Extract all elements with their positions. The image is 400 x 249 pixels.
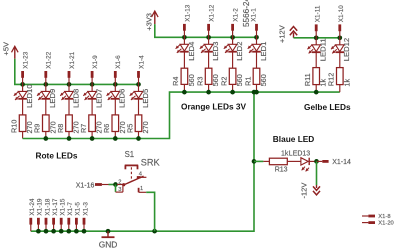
pin X1-7 [67,202,74,232]
pin X1-19 [37,198,44,231]
svg-text:R7: R7 [79,124,88,133]
svg-text:X1-17: X1-17 [52,198,59,215]
svg-text:X1-7: X1-7 [67,202,74,216]
svg-text:X1-21: X1-21 [69,51,76,68]
junction +5V rail at X1-23 [20,82,25,87]
pin X1-10 [338,5,345,38]
pin X1-18 [44,198,51,231]
svg-text:3: 3 [118,187,121,193]
pin X1-5 [75,202,82,232]
pin X1-8 [362,214,391,220]
junction GND bus [44,229,49,234]
pin X1-24 [29,198,36,231]
wire X1-16 node to pin3 [115,185,117,192]
svg-text:X1-12: X1-12 [209,4,216,21]
junction switch drop at GND bus [152,229,157,234]
svg-text:S1: S1 [125,150,135,159]
pin X1-1 [251,8,258,38]
pin X1-15 [60,198,67,231]
pin X1-23 [23,51,30,84]
LED LED4 [176,37,196,61]
svg-text:270: 270 [141,121,150,133]
resistor R9 270 [33,99,58,139]
pin X1-22 [46,51,53,84]
svg-text:X1-9: X1-9 [92,55,99,69]
svg-text:LED12: LED12 [342,38,351,62]
pin X1-21 [69,51,76,84]
junction +5V rail at X1-9 [90,82,95,87]
junction orange cathode bus [254,90,259,95]
pin X1-6 [115,55,122,85]
svg-text:X1-13: X1-13 [184,4,191,21]
LED LED9 [37,84,57,108]
junction red cathode bus [43,136,48,141]
junction GND bus [51,229,56,234]
svg-text:X1-4: X1-4 [138,55,145,69]
junction +5V rail at X1-4 [136,82,141,87]
LED LED10 [14,84,34,108]
junction +12V rail at X1-10 [337,35,342,40]
resistor R7 270 [79,99,104,139]
junction +3V3 rail at X1-13 [182,35,187,40]
svg-text:+12V: +12V [278,25,287,43]
svg-text:X1-15: X1-15 [60,198,67,215]
svg-text:X1-14: X1-14 [332,159,351,166]
wire GND bus [31,92,254,231]
resistor R13 1k [263,151,301,174]
svg-text:LED3: LED3 [211,42,220,61]
pin X1-13 [184,4,191,37]
svg-text:X1-10: X1-10 [338,5,345,22]
wire blue feed [254,160,263,162]
wire red-LED cathode bus to orange bus [23,92,340,138]
svg-text:X1-1: X1-1 [251,8,258,22]
svg-text:2: 2 [118,179,121,185]
junction red cathode bus [113,136,118,141]
pin X1-14 [317,159,351,166]
junction +5V rail at X1-21 [67,82,72,87]
svg-text:LED1: LED1 [259,42,268,61]
junction red cathode bus [90,136,95,141]
LED LED2 [224,37,244,61]
junction GND bus [59,229,64,234]
wire switch pin1 to GND bus [146,192,154,231]
svg-text:R8: R8 [56,124,65,133]
svg-text:X1-3: X1-3 [82,202,89,216]
supply +5V [2,42,19,59]
svg-text:X1-5: X1-5 [75,202,82,216]
pin X1-4 [138,55,145,85]
junction +5V rail at X1-22 [43,82,48,87]
LED LED6 [107,84,127,108]
svg-text:GND: GND [99,239,118,249]
LED LED1 [248,37,268,61]
svg-text:LED9: LED9 [48,89,57,108]
pin X1-20 [362,221,394,227]
svg-text:LED6: LED6 [118,89,127,108]
LED LED5 [130,84,150,108]
svg-text:5566-24: 5566-24 [242,0,251,27]
junction +12V rail at X1-11 [314,35,319,40]
svg-text:R2: R2 [219,77,228,86]
svg-text:X1-18: X1-18 [44,198,51,215]
svg-text:R9: R9 [33,124,42,133]
supply +3V3 [144,11,158,31]
svg-text:R13: R13 [275,167,288,174]
wire +12V rail [294,37,340,39]
supply -12V [300,183,320,199]
svg-text:-12V: -12V [300,183,309,199]
junction red cathode bus [67,136,72,141]
junction GND bus [74,229,79,234]
supply +12V [278,25,298,43]
resistor R3 560 [195,52,220,92]
junction +3V3 rail at X1-1 [254,35,259,40]
pin X1-16 [76,182,109,189]
pin X1-12 [209,4,216,37]
svg-text:LED4: LED4 [187,41,196,61]
resistor R8 270 [56,99,81,139]
junction orange cathode bus [182,90,187,95]
svg-text:X1-22: X1-22 [46,51,53,68]
pin X1-9 [92,55,99,85]
switch S1 SRK [116,150,161,193]
svg-text:+3V3: +3V3 [144,13,153,31]
svg-text:1k: 1k [281,151,289,158]
junction +3V3 rail at X1-12 [206,35,211,40]
svg-text:X1-8: X1-8 [378,214,390,220]
svg-text:R11: R11 [303,73,312,86]
resistor R6 270 [102,99,127,139]
pin X1-2 [233,8,240,38]
pin X1-17 [52,198,59,231]
junction GND bus [36,229,41,234]
resistor R10 270 [9,99,34,139]
LED LED8 [60,84,80,108]
junction orange cathode bus [206,90,211,95]
svg-text:X1-20: X1-20 [378,221,393,227]
svg-text:Blaue LED: Blaue LED [273,134,315,144]
svg-text:X1-2: X1-2 [233,8,240,22]
junction blue feed [252,159,257,164]
junction GND bus [66,229,71,234]
svg-text:Gelbe LEDs: Gelbe LEDs [304,102,351,112]
svg-text:LED13: LED13 [289,151,311,158]
svg-text:+5V: +5V [2,42,11,56]
junction red cathode bus [136,136,141,141]
wire +5V rail [15,59,139,85]
wire X1-16 to switch [109,184,116,186]
junction +3V3 rail at X1-2 [230,35,235,40]
junction GND riser at orange bus [252,90,257,95]
svg-text:R6: R6 [102,124,111,133]
LED LED11 [307,38,327,62]
svg-text:Rote LEDs: Rote LEDs [36,151,78,161]
pin X1-3 [82,202,89,232]
svg-text:1: 1 [140,186,143,192]
resistor R5 270 [125,99,150,139]
LED LED13 [289,151,317,172]
svg-text:X1-6: X1-6 [115,55,122,69]
resistor R11 1k [303,52,328,92]
svg-text:R12: R12 [327,73,336,86]
svg-text:1k: 1k [342,79,351,87]
junction +5V rail at X1-6 [113,82,118,87]
svg-text:LED5: LED5 [141,89,150,108]
svg-text:LED11: LED11 [319,38,328,61]
svg-text:LED2: LED2 [235,42,244,61]
svg-text:R1: R1 [243,77,252,86]
junction GND bus [82,229,87,234]
svg-text:LED8: LED8 [71,89,80,108]
svg-text:X1-16: X1-16 [76,182,95,189]
svg-text:LED10: LED10 [25,84,34,108]
resistor R4 560 [171,52,196,92]
svg-text:R10: R10 [9,120,18,133]
svg-text:R4: R4 [171,77,180,86]
svg-text:R5: R5 [125,124,134,133]
svg-text:X1-23: X1-23 [23,51,30,68]
svg-text:560: 560 [259,74,268,86]
resistor R12 1k [327,52,352,92]
resistor R1 560 [243,52,268,92]
junction yellow cathode bus at R11 [314,90,319,95]
svg-text:X1-24: X1-24 [29,198,36,215]
resistor R2 560 [219,52,244,92]
svg-text:SRK: SRK [141,157,161,167]
svg-text:X1-19: X1-19 [37,198,44,215]
svg-text:LED7: LED7 [94,89,103,108]
LED LED7 [83,84,103,108]
pin X1-11 [314,5,321,38]
junction orange cathode bus [230,90,235,95]
wire to -12V [316,161,318,185]
ground GND [99,229,118,249]
wire +3V3 rail [155,24,257,37]
LED LED3 [200,37,220,61]
svg-text:X1-11: X1-11 [314,5,321,22]
junction X1-16 node [113,182,118,187]
svg-text:Orange LEDs 3V: Orange LEDs 3V [181,102,246,112]
junction LED13 cathode node [314,159,319,164]
LED LED12 [331,38,351,62]
svg-text:R3: R3 [195,77,204,86]
